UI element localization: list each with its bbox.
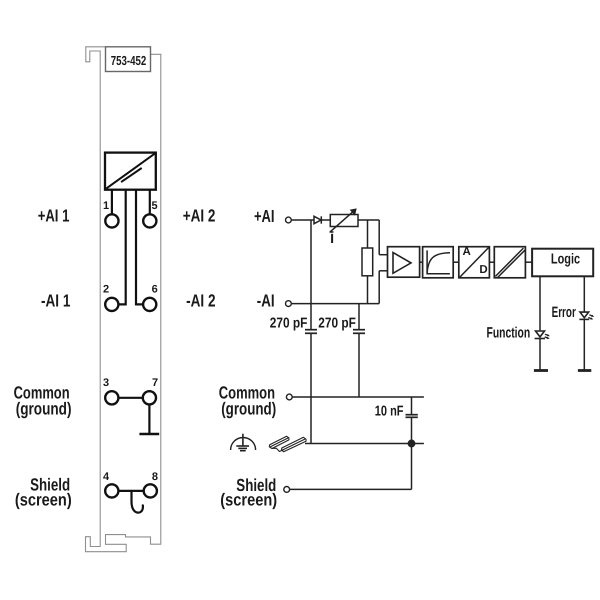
- svg-text:-AI 2: -AI 2: [186, 291, 216, 311]
- svg-text:1: 1: [103, 200, 109, 212]
- svg-text:270 pF: 270 pF: [318, 315, 356, 331]
- svg-text:8: 8: [152, 471, 158, 483]
- svg-text:-AI: -AI: [257, 290, 275, 310]
- svg-text:Function: Function: [487, 324, 531, 341]
- svg-text:+AI 2: +AI 2: [183, 206, 216, 226]
- svg-text:D: D: [479, 264, 487, 276]
- svg-text:-AI 1: -AI 1: [41, 291, 71, 311]
- svg-text:(ground): (ground): [221, 399, 276, 419]
- svg-text:7: 7: [152, 377, 158, 389]
- svg-text:A: A: [463, 246, 471, 258]
- svg-text:3: 3: [103, 377, 109, 389]
- svg-text:10 nF: 10 nF: [375, 403, 404, 419]
- svg-text:+AI: +AI: [254, 206, 275, 226]
- svg-text:Error: Error: [552, 304, 576, 321]
- svg-text:5: 5: [152, 200, 158, 212]
- svg-text:(ground): (ground): [16, 399, 72, 419]
- svg-text:270 pF: 270 pF: [270, 315, 308, 331]
- svg-text:2: 2: [103, 284, 109, 296]
- svg-text:6: 6: [152, 284, 158, 296]
- svg-text:4: 4: [103, 471, 110, 483]
- svg-text:+AI 1: +AI 1: [38, 206, 70, 226]
- svg-text:753-452: 753-452: [111, 53, 147, 68]
- svg-text:(screen): (screen): [220, 489, 277, 509]
- svg-text:(screen): (screen): [15, 489, 72, 509]
- svg-text:Logic: Logic: [551, 251, 580, 267]
